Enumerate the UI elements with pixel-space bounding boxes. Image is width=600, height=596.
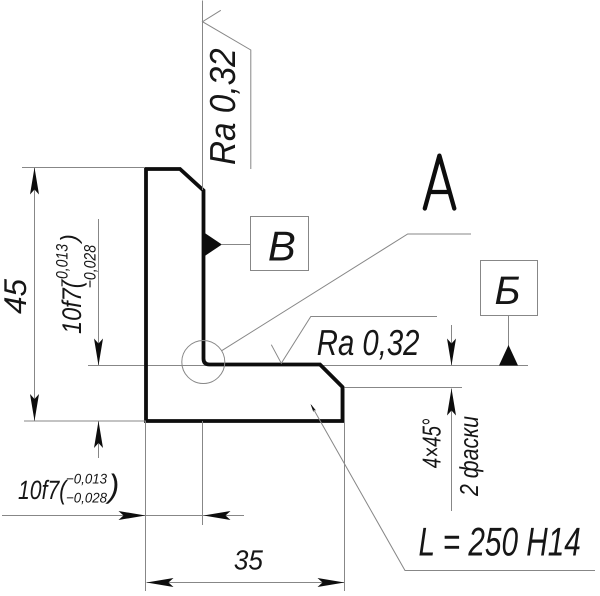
extension line: right edge of horizontal leg down (for 35) bbox=[344, 389, 346, 592]
extension line: left edge down (for 10f7 and 35) bbox=[145, 421, 147, 591]
datum leader Б bbox=[508, 316, 510, 347]
arrowhead 35 right bbox=[318, 578, 345, 587]
arrowhead b10f7 left bbox=[119, 511, 146, 520]
label 10f7(-0,013/-0,028) rotated bbox=[53, 234, 99, 334]
svg-text:−0,028: −0,028 bbox=[66, 490, 107, 506]
dimension line 45 bbox=[34, 168, 36, 422]
svg-text:−0,013: −0,013 bbox=[53, 243, 71, 287]
arrowhead 45 bottom bbox=[30, 394, 39, 421]
dimension line 4x45 chamfer bbox=[451, 325, 453, 511]
roughness symbol (rotated) on top extension bbox=[203, 10, 251, 169]
extension line: chamfer bottom, right side bbox=[345, 387, 463, 389]
svg-text:4×45°: 4×45° bbox=[416, 419, 446, 469]
svg-text:Ra 0,32: Ra 0,32 bbox=[202, 48, 243, 165]
roughness symbol middle (on inner surface) bbox=[271, 317, 437, 364]
arrowhead 45 top bbox=[30, 168, 39, 195]
datum triangle Б bbox=[499, 345, 518, 366]
svg-text:L = 250 H14: L = 250 H14 bbox=[419, 520, 581, 565]
arrowhead b10f7 right bbox=[204, 511, 231, 520]
arrowhead 10f7v upper bbox=[94, 339, 103, 366]
extension line: right leg inner edge down (for 10f7) bbox=[202, 421, 204, 525]
svg-text:45: 45 bbox=[0, 278, 33, 314]
extension line: bottom surface to the left (for 45) bbox=[24, 420, 146, 422]
leader for L = 250 H14 bbox=[311, 405, 595, 570]
arrowhead 10f7v lower bbox=[94, 421, 103, 448]
svg-text:В: В bbox=[268, 223, 296, 270]
datum frame V (Cyrillic В) bbox=[251, 217, 309, 271]
svg-text:35: 35 bbox=[234, 545, 264, 576]
datum triangle В bbox=[204, 233, 222, 257]
small leader arrowhead bbox=[311, 404, 317, 412]
extension line: inner horizontal surface extended (left and right) bbox=[88, 365, 528, 367]
part outline: L-angle profile bbox=[146, 169, 343, 421]
letter A (Cyrillic А), drawn strokes bbox=[425, 156, 455, 209]
datum leader В bbox=[222, 244, 251, 246]
extension line: right leg edge extended up bbox=[202, 1, 204, 191]
svg-text:10f7(: 10f7( bbox=[18, 475, 69, 505]
label 10f7(-0,013/-0,028) horizontal bbox=[18, 468, 119, 506]
arrowhead 4x45 upper bbox=[447, 339, 456, 366]
svg-text:−0,028: −0,028 bbox=[82, 244, 100, 288]
dimension line 10f7 vertical (leg thickness) bbox=[98, 219, 100, 458]
extension line: top surface to the left (for 45) bbox=[22, 167, 145, 169]
arrowhead 4x45 lower bbox=[447, 389, 456, 416]
detail circle A at inner fillet bbox=[182, 341, 225, 384]
arrowhead 35 left bbox=[147, 578, 174, 587]
dimension line 35 bbox=[147, 582, 345, 584]
detail leader A bbox=[222, 234, 471, 351]
svg-text:Б: Б bbox=[494, 269, 520, 313]
svg-text:−0,013: −0,013 bbox=[66, 471, 107, 487]
svg-text:2 фаски: 2 фаски bbox=[454, 416, 484, 497]
svg-text:Ra 0,32: Ra 0,32 bbox=[317, 322, 420, 363]
datum frame B (Cyrillic Б) bbox=[481, 261, 538, 316]
dimension line 10f7 bottom bbox=[2, 515, 244, 517]
